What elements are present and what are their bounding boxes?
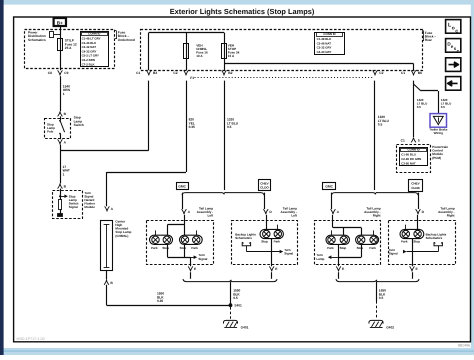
svg-text:15 A: 15 A <box>228 54 235 58</box>
svg-text:G401: G401 <box>241 326 249 330</box>
svg-text:F1: F1 <box>190 76 194 80</box>
svg-text:Stop: Stop <box>340 246 347 250</box>
svg-text:Signal: Signal <box>389 251 398 255</box>
svg-text:Rear: Rear <box>425 38 433 42</box>
svg-text:GMC: GMC <box>325 185 333 189</box>
svg-text:CONN ID: CONN ID <box>88 32 100 36</box>
svg-text:Stop: Stop <box>180 246 187 250</box>
svg-text:C1: C1 <box>401 71 405 75</box>
svg-text:Exterior Lights Schematics (St: Exterior Lights Schematics (Stop Lamps) <box>170 7 315 16</box>
svg-text:C7-2 BLK: C7-2 BLK <box>82 62 96 66</box>
svg-text:25 A: 25 A <box>65 46 72 50</box>
svg-text:GMC: GMC <box>178 185 186 189</box>
svg-text:Park: Park <box>369 246 376 250</box>
svg-text:CLDO: CLDO <box>260 185 269 189</box>
svg-text:Underhood: Underhood <box>118 38 135 42</box>
svg-text:Right: Right <box>447 214 455 218</box>
svg-text:Switch: Switch <box>74 123 84 127</box>
svg-text:0.35: 0.35 <box>157 299 163 303</box>
svg-text:B+: B+ <box>57 20 63 25</box>
svg-text:Signal: Signal <box>198 257 207 261</box>
svg-text:0.5: 0.5 <box>233 296 238 300</box>
svg-text:B6: B6 <box>418 71 422 75</box>
svg-text:C2: C2 <box>173 71 177 75</box>
svg-text:MSD-1P717-1-D2: MSD-1P717-1-D2 <box>17 337 46 341</box>
svg-text:C1-80 BLU: C1-80 BLU <box>401 153 416 157</box>
svg-text:CONN ID: CONN ID <box>407 147 419 151</box>
svg-text:c: c <box>455 28 458 34</box>
svg-text:Left: Left <box>291 214 297 218</box>
svg-text:0.5: 0.5 <box>378 123 383 127</box>
svg-text:B4: B4 <box>153 71 157 75</box>
svg-text:CONN ID: CONN ID <box>323 32 335 36</box>
svg-text:C4-40 GRY: C4-40 GRY <box>317 50 332 54</box>
svg-text:c: c <box>457 48 460 53</box>
svg-text:Stop: Stop <box>261 240 268 244</box>
svg-text:Park: Park <box>191 246 198 250</box>
svg-text:10 A: 10 A <box>196 54 203 58</box>
svg-text:Wiring: Wiring <box>434 131 443 135</box>
svg-text:C2: C2 <box>379 71 383 75</box>
svg-text:C9: C9 <box>64 71 68 75</box>
svg-text:Park: Park <box>401 240 408 244</box>
svg-text:Pole: Pole <box>47 130 54 134</box>
svg-text:5: 5 <box>418 139 420 143</box>
svg-text:0.35: 0.35 <box>189 125 195 129</box>
svg-text:(CHMSL): (CHMSL) <box>115 234 128 238</box>
svg-text:Left: Left <box>208 214 214 218</box>
svg-text:B2: B2 <box>228 71 232 75</box>
svg-text:Park: Park <box>151 246 158 250</box>
svg-text:Park: Park <box>274 240 281 244</box>
svg-text:C1: C1 <box>401 139 405 143</box>
svg-text:Module: Module <box>84 205 95 209</box>
svg-text:Right: Right <box>373 214 381 218</box>
svg-text:Schematics: Schematics <box>28 38 46 42</box>
svg-text:Schematics: Schematics <box>235 236 252 240</box>
svg-text:1: 1 <box>63 172 65 176</box>
svg-text:C1: C1 <box>136 71 140 75</box>
svg-text:Stop: Stop <box>413 240 420 244</box>
svg-text:C8: C8 <box>48 71 52 75</box>
svg-text:Lamp: Lamp <box>316 257 324 261</box>
svg-text:Signal: Signal <box>69 205 78 209</box>
svg-text:Stop: Stop <box>357 246 364 250</box>
svg-text:C2-80 DK GRN: C2-80 DK GRN <box>401 157 421 161</box>
svg-text:CLDB: CLDB <box>411 186 420 190</box>
svg-text:881496: 881496 <box>458 344 470 348</box>
svg-text:Park: Park <box>327 246 334 250</box>
svg-text:Stop: Stop <box>162 246 169 250</box>
svg-text:(PCM): (PCM) <box>432 156 441 160</box>
svg-text:C3-80 NAT: C3-80 NAT <box>401 162 416 166</box>
svg-text:0.5: 0.5 <box>441 105 446 109</box>
svg-text:0.5: 0.5 <box>379 296 384 300</box>
svg-text:1: 1 <box>63 92 65 96</box>
svg-text:0.5: 0.5 <box>417 105 422 109</box>
svg-text:S401: S401 <box>234 304 242 308</box>
svg-text:0.5: 0.5 <box>227 125 232 129</box>
svg-text:Signal: Signal <box>284 251 293 255</box>
svg-text:G402: G402 <box>386 326 394 330</box>
svg-text:Schematics: Schematics <box>426 236 443 240</box>
